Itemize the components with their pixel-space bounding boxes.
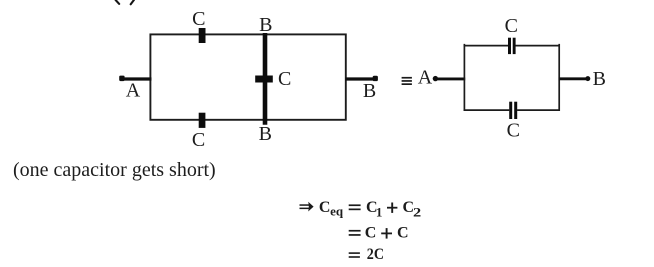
implies arrow (double arrow)	[300, 202, 314, 212]
svg-text:2: 2	[413, 204, 421, 219]
svg-text:B: B	[259, 14, 272, 36]
value label C (top capacitor)	[192, 8, 205, 30]
svg-text:C: C	[507, 120, 520, 142]
svg-text:A: A	[418, 66, 433, 88]
svg-text:eq: eq	[330, 204, 344, 219]
svg-text:(one capacitor gets short): (one capacitor gets short)	[13, 159, 216, 181]
wire: terminal lead A (equivalent circuit)	[435, 77, 465, 80]
caption text	[13, 159, 216, 181]
svg-text:C: C	[397, 225, 409, 242]
value label C (top capacitor, equivalent circuit)	[505, 15, 518, 37]
node label B (equivalent circuit)	[593, 68, 606, 90]
node label A (equivalent circuit)	[418, 66, 433, 88]
wire: left circuit rectangle loop	[150, 34, 345, 119]
value label C (middle capacitor)	[278, 68, 291, 90]
svg-text:C: C	[192, 129, 205, 151]
node label B (top of middle branch)	[259, 14, 272, 36]
svg-text:C: C	[505, 15, 518, 37]
node B terminal dot (equivalent circuit)	[585, 76, 590, 81]
capacitor C bottom (shorted, drawn as solid bar)	[199, 113, 206, 128]
node A terminal dot (equivalent circuit)	[433, 76, 438, 81]
node label B (bottom of middle branch)	[259, 123, 272, 145]
capacitor C bottom (equivalent circuit, two plates)	[509, 102, 517, 119]
value label C (bottom capacitor, equivalent circuit)	[507, 120, 520, 142]
equivalence symbol	[402, 77, 412, 85]
svg-text:A: A	[126, 80, 141, 102]
svg-text:B: B	[363, 80, 376, 102]
cropped mark (left tick of cut text above)	[116, 0, 120, 4]
svg-text:C: C	[192, 8, 205, 30]
node B terminal dot (left circuit)	[373, 76, 378, 81]
svg-text:C: C	[278, 68, 291, 90]
equation line 3: = 2C	[349, 246, 384, 263]
value label C (bottom capacitor)	[192, 129, 205, 151]
wire: terminal lead B (equivalent circuit)	[559, 77, 588, 80]
capacitor C top (equivalent circuit, two plates)	[508, 38, 516, 54]
wire: terminal lead A (left circuit)	[122, 77, 152, 80]
svg-text:2C: 2C	[367, 246, 384, 263]
wire: terminal lead B (left circuit)	[346, 77, 376, 80]
wire: middle branch between node B (top) and node B (bottom)	[263, 33, 268, 125]
node label A (left circuit)	[126, 80, 141, 102]
equation line 2: = C + C	[349, 225, 409, 242]
wire: equivalent circuit rectangle loop (gaps at capacitors)	[464, 45, 560, 110]
equation line 1: Ceq = C1 + C2	[319, 199, 421, 219]
svg-text:C: C	[319, 199, 331, 216]
cropped mark (right tick of cut text above)	[131, 0, 134, 4]
svg-text:B: B	[259, 123, 272, 145]
node A terminal dot (left circuit)	[119, 76, 124, 82]
capacitor C middle (plate bar across branch)	[255, 76, 273, 83]
node label B (left circuit, right terminal)	[363, 80, 376, 102]
svg-text:C: C	[365, 225, 377, 242]
svg-text:B: B	[593, 68, 606, 90]
capacitor C top (shorted, drawn as solid bar)	[199, 28, 206, 43]
svg-text:1: 1	[376, 204, 383, 219]
